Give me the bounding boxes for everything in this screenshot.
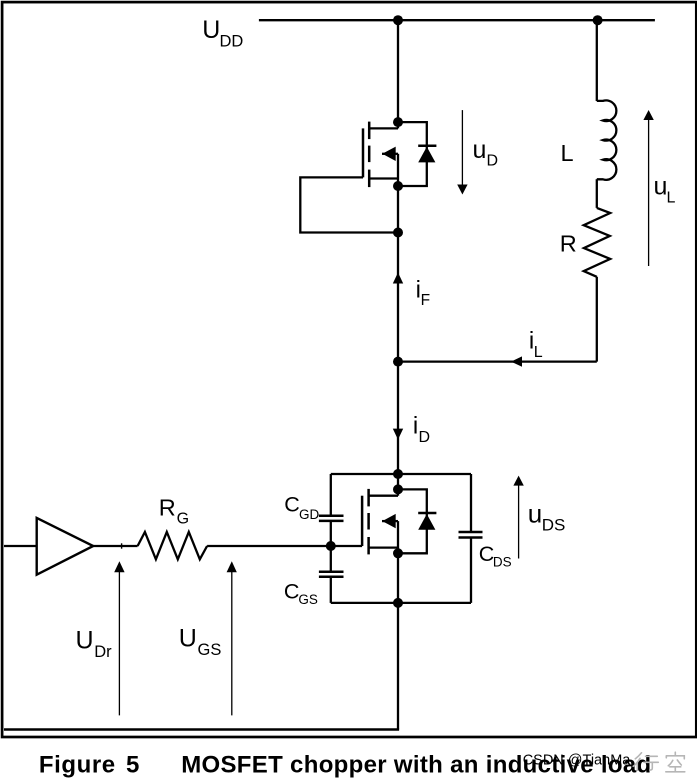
- svg-text:C: C: [284, 493, 300, 517]
- svg-text:U: U: [179, 625, 197, 653]
- svg-text:u: u: [654, 173, 668, 201]
- svg-text:C: C: [284, 580, 300, 604]
- svg-text:DD: DD: [220, 33, 244, 51]
- svg-text:U: U: [76, 626, 94, 654]
- svg-text:u: u: [473, 136, 487, 164]
- svg-text:GS: GS: [298, 592, 318, 607]
- svg-text:u: u: [528, 499, 542, 529]
- svg-text:DS: DS: [493, 555, 512, 570]
- svg-text:D: D: [487, 153, 499, 170]
- svg-text:L: L: [534, 344, 543, 361]
- svg-text:R: R: [560, 230, 577, 256]
- svg-text:L: L: [561, 140, 574, 166]
- svg-text:5: 5: [126, 752, 139, 779]
- svg-text:Figure: Figure: [39, 752, 115, 779]
- svg-text:GD: GD: [299, 507, 320, 522]
- svg-text:U: U: [202, 16, 220, 44]
- svg-text:C: C: [479, 542, 495, 566]
- svg-text:L: L: [667, 189, 676, 206]
- svg-text:DS: DS: [542, 516, 566, 535]
- svg-text:Dr: Dr: [94, 643, 112, 661]
- svg-text:i: i: [413, 413, 418, 440]
- svg-text:R: R: [159, 495, 176, 521]
- svg-text:F: F: [421, 292, 430, 309]
- svg-text:D: D: [419, 429, 431, 446]
- svg-text:G: G: [177, 511, 189, 528]
- svg-text:CSDN @TianMa: CSDN @TianMa: [523, 752, 632, 768]
- svg-text:GS: GS: [198, 641, 222, 659]
